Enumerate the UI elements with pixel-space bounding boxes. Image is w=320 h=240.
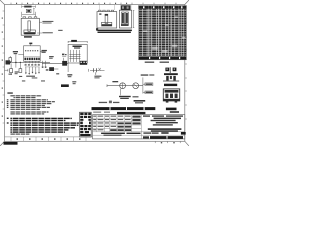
relay K1 inner top line — [24, 56, 41, 58]
detail B/C caption line 1 — [97, 30, 132, 32]
corner trim diagonal bottom-left — [0, 141, 5, 146]
scale cell text — [101, 133, 125, 134]
note line 6 — [10, 105, 45, 106]
wire table body text columns — [139, 9, 148, 56]
detail A dimension label text — [24, 6, 31, 8]
detail A leader line 2 — [37, 32, 42, 34]
detail A upper dimension line — [22, 5, 36, 7]
detail B/C caption line 2 — [98, 32, 131, 33]
wire table header row — [139, 6, 187, 9]
note line 18 — [10, 134, 29, 135]
note line 3 — [10, 99, 48, 100]
zone tick marks right border — [185, 23, 187, 119]
zone tick marks left border — [3, 11, 5, 123]
note bold line 11 — [10, 118, 71, 119]
detail B terminal bumps — [99, 10, 114, 11]
detail A enclosure box — [21, 18, 39, 35]
faint label top-left of ATS — [58, 30, 62, 31]
label below-right of K1 — [49, 56, 54, 57]
wire from K1 left — [18, 54, 23, 56]
subtitle bold line — [117, 112, 145, 114]
legend heading — [166, 108, 177, 111]
legend figure 2: terminal block plan view — [163, 89, 179, 101]
ATS ladder wires — [70, 50, 79, 62]
detail A leader label 1 — [42, 21, 53, 22]
scattered small text above title — [99, 102, 107, 103]
note line 8 — [10, 109, 40, 110]
detail A dimension line — [22, 13, 36, 15]
row labels above title block — [93, 112, 101, 113]
approval rows text smudges — [93, 116, 130, 131]
panel bus horizontal — [42, 62, 68, 64]
note bold line 16 — [10, 129, 68, 130]
relay K1 top tag — [29, 43, 32, 45]
relay K1 box — [24, 46, 41, 62]
note bold line 13 — [10, 122, 79, 123]
bottom zone ticks below frame — [155, 141, 180, 143]
title block horizontal rules left section — [93, 118, 185, 135]
legend figure 1 caption bar — [164, 84, 177, 86]
detail A upper bolt head symbol — [26, 9, 31, 12]
generator G label (dark) — [61, 84, 69, 87]
small label right of ATS box — [96, 28, 98, 30]
detail A leader line 1 — [39, 21, 42, 23]
label TB right of K1 — [42, 50, 47, 51]
meter wire — [107, 84, 143, 87]
fan-out top label — [141, 74, 149, 75]
zone digit dots top — [16, 3, 127, 4]
relay K1 terminal row — [24, 58, 39, 60]
note bold line 17 — [10, 131, 65, 132]
branch arrowheads — [25, 72, 40, 75]
detail A bolt base plate — [24, 30, 36, 34]
detail B enclosure box — [97, 12, 117, 28]
receptacle circle — [133, 83, 139, 89]
detail A leader label 2 — [42, 32, 52, 33]
meter drop wire — [120, 89, 122, 96]
note line 7 — [10, 107, 50, 108]
sheet number bold row — [150, 136, 167, 139]
wire table outline — [139, 6, 187, 60]
CB1 label — [15, 71, 19, 72]
agency block heading — [143, 115, 150, 116]
ATS ladder cross ticks — [69, 54, 80, 58]
detail B base dark fill — [102, 24, 112, 26]
tick before disconnect — [88, 69, 90, 72]
title block vertical rules left section — [97, 115, 142, 139]
relay K1 terminal labels row — [25, 64, 40, 65]
detail A dimension extension lines — [22, 12, 36, 17]
breaker CB1 — [10, 69, 13, 73]
stub at left frame — [5, 69, 8, 72]
small feeder component on bus — [49, 67, 54, 71]
note 2 number — [7, 99, 9, 100]
drop from feeder junction — [15, 62, 17, 67]
relay K1 pin wires — [26, 61, 39, 63]
scattered wiring labels row — [9, 74, 13, 75]
contact symbol left of ATS — [62, 55, 66, 57]
meter label — [112, 81, 118, 82]
ATS terminal cluster dark — [80, 61, 88, 65]
agency centered line 4 — [153, 124, 173, 125]
meter M1 circle — [120, 83, 126, 89]
note 5 number — [7, 105, 9, 106]
strip cell dividers — [11, 137, 86, 141]
detail C inner bar 1 — [122, 12, 125, 25]
strip top rule — [5, 136, 93, 138]
detail B bolt stem — [105, 14, 108, 23]
extension lines above detail boxes — [100, 5, 132, 10]
note bold line 12 — [10, 120, 65, 121]
left feeder wire — [7, 61, 50, 63]
ATS drop wire — [67, 63, 69, 72]
detail B small inner mark — [99, 13, 101, 14]
wire table light patches — [143, 16, 186, 52]
disconnect label — [94, 76, 101, 77]
detail C inner bar 2 — [126, 12, 129, 25]
main title bold line — [92, 107, 156, 110]
ATS inner label — [73, 46, 82, 48]
detail C hatched cap — [121, 5, 131, 10]
ATS dimension line above box — [68, 41, 87, 43]
project title dark lines — [148, 128, 182, 130]
drawing number row — [143, 132, 151, 133]
junction dots on feeder — [15, 62, 17, 64]
fuse FU1 label cluster — [13, 51, 18, 52]
zone tick marks top border — [11, 3, 176, 5]
agency centered line 1 — [154, 118, 181, 120]
branch drops cluster — [26, 67, 39, 74]
service entrance connector — [6, 60, 11, 64]
agency centered line 2 — [151, 120, 176, 121]
note line 2 — [14, 97, 36, 98]
cad file cell text — [127, 133, 141, 134]
note 11 number — [7, 118, 9, 119]
tick row under relay pins — [25, 66, 40, 68]
detail C right dimension line — [133, 10, 134, 28]
note 4 number — [7, 103, 9, 104]
legend figure 1: terminal block front view — [165, 68, 169, 72]
detail B base plate — [102, 22, 112, 26]
strip cell marks — [17, 138, 81, 140]
detail A base dark fill — [24, 32, 35, 34]
wire table footer dark row — [139, 56, 186, 59]
disconnect symbol — [90, 69, 105, 71]
wire table column rules — [149, 6, 182, 60]
dark junction box below contact — [62, 61, 67, 66]
corner trim diagonal top-left — [0, 0, 5, 5]
note bold line 15 — [10, 127, 75, 128]
ATS enclosure box — [68, 44, 87, 63]
agency centered line 3 — [156, 122, 178, 123]
note line 5 — [10, 103, 52, 104]
note bold line 14 — [10, 125, 78, 126]
note 13 number — [7, 122, 9, 123]
note line 9 — [10, 111, 48, 112]
relay K1 inner contact row — [25, 50, 38, 51]
title block outline — [93, 115, 185, 139]
wire from K1 right — [40, 50, 46, 52]
note line 1 — [10, 95, 42, 96]
note 6 number — [7, 107, 9, 108]
note line 10 — [10, 113, 44, 114]
corner trim diagonal top-right — [185, 0, 189, 5]
detail A bolt stem — [28, 21, 31, 31]
text under ATS — [67, 74, 72, 75]
detail A terminal bumps on top — [23, 17, 37, 19]
zone letter dots left — [2, 18, 3, 117]
detail C enclosure box — [119, 10, 131, 28]
detail A caption — [24, 36, 32, 37]
border frame — [5, 5, 185, 142]
note line 4 — [10, 101, 55, 102]
ATS title label — [71, 40, 77, 42]
fuse above feeder bus — [9, 58, 12, 62]
branch labels text — [26, 76, 35, 77]
fan-out branch 1 — [143, 83, 145, 85]
corner trim diagonal bottom-right — [185, 141, 189, 146]
dark data cells in middle columns — [110, 116, 140, 131]
note 3 number — [7, 101, 9, 102]
extra drops right of relay — [43, 61, 46, 66]
breaker CB2 — [19, 69, 22, 73]
fan-out branch 2 — [143, 91, 145, 93]
detail A vertical dim line — [33, 8, 34, 14]
caption text below table — [145, 62, 155, 63]
connector fan-out trunk — [142, 77, 144, 93]
notes heading — [7, 92, 12, 93]
wire stub label row — [119, 96, 131, 97]
